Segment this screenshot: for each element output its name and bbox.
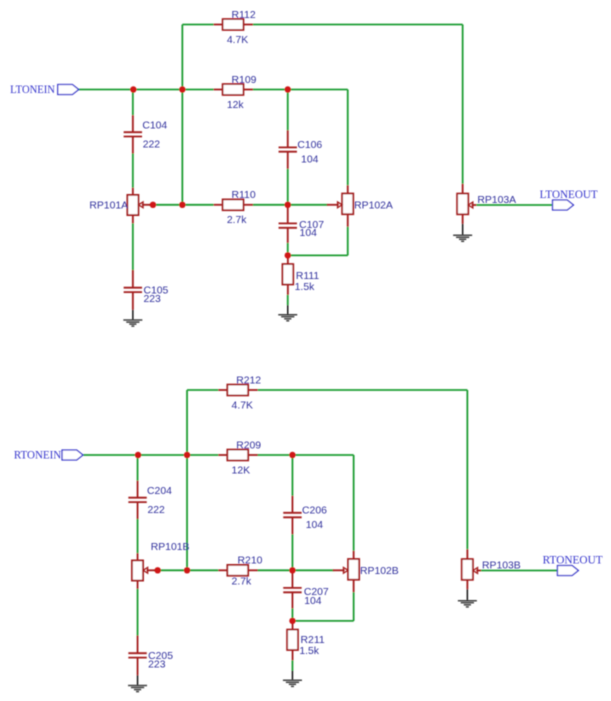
junction wiper row/left vertical <box>184 567 190 573</box>
junction C207/R211 <box>289 618 295 624</box>
svg-text:12K: 12K <box>232 465 251 476</box>
svg-text:R110: R110 <box>232 190 256 201</box>
capacitor C207 <box>291 572 293 588</box>
svg-text:1.5k: 1.5k <box>299 646 319 657</box>
capacitor C107 <box>287 206 289 223</box>
capacitor C105 <box>132 270 134 288</box>
resistor R211 <box>292 621 294 630</box>
junction C107/R111 <box>285 252 291 258</box>
potentiometer RP102B <box>353 551 355 559</box>
potentiometer RP102A <box>347 185 349 193</box>
port RTONEIN <box>62 450 83 460</box>
wire C106 bottom <box>287 169 289 205</box>
ground (RP103A) <box>453 235 472 241</box>
junction wiper row/left vertical <box>179 202 185 208</box>
wire top rail right (R212) <box>258 389 468 391</box>
potentiometer RP101A <box>132 188 134 195</box>
wire C104 top <box>132 90 134 116</box>
potentiometer RP101B <box>137 553 139 560</box>
junction R109/C106 <box>285 86 291 92</box>
svg-text:RP101A: RP101A <box>89 201 128 212</box>
svg-text:R209: R209 <box>236 440 261 451</box>
resistor R112 <box>214 24 223 26</box>
svg-text:4.7K: 4.7K <box>227 35 248 46</box>
ground lead RP103B <box>466 589 468 600</box>
wire C207 to R211 <box>291 608 293 621</box>
ground (C105) <box>123 320 142 326</box>
wire C206 top <box>291 455 293 496</box>
wire R111 row to RP102A bottom <box>288 254 348 256</box>
potentiometer RP103B <box>466 549 468 559</box>
wire R111 to ground <box>287 295 289 305</box>
wire top rail right (R112) <box>253 24 463 26</box>
svg-text:223: 223 <box>148 660 166 671</box>
wire R209 output to RP102B top <box>257 454 353 456</box>
resistor R209 <box>218 454 227 456</box>
svg-text:2.7k: 2.7k <box>227 215 247 226</box>
port LTONEOUT <box>553 200 574 210</box>
junction RP101A wiper <box>150 202 156 208</box>
wire RP103B wiper to output port <box>481 570 557 572</box>
svg-text:12k: 12k <box>227 100 245 111</box>
resistor R109 <box>214 89 223 91</box>
wire C106 top <box>287 90 289 131</box>
svg-text:223: 223 <box>143 294 161 305</box>
wire left vertical <box>181 25 183 205</box>
junction R209/C206 <box>289 452 295 458</box>
wire R211 row to RP102B bottom <box>292 620 353 622</box>
ground lead R211 <box>291 671 293 681</box>
capacitor C106 <box>287 130 289 147</box>
junction RP101B wiper <box>154 567 160 573</box>
junction R110/C107 <box>285 202 291 208</box>
wire wiper row right <box>253 204 328 206</box>
ground (RP103B) <box>458 601 477 607</box>
wire C204 top <box>137 455 139 481</box>
wire C107 to R111 <box>287 243 289 256</box>
svg-text:LTONEOUT: LTONEOUT <box>540 189 598 201</box>
svg-text:104: 104 <box>300 228 318 239</box>
port LTONEIN <box>58 85 79 95</box>
capacitor C205 <box>137 636 139 654</box>
svg-text:222: 222 <box>147 505 165 516</box>
svg-text:R112: R112 <box>232 10 256 21</box>
svg-text:222: 222 <box>143 140 161 151</box>
svg-text:C206: C206 <box>302 506 327 517</box>
svg-text:R211: R211 <box>301 635 325 646</box>
junction R210/C207 <box>289 567 295 573</box>
port RTONEOUT <box>557 566 578 576</box>
svg-text:RP102A: RP102A <box>354 201 393 212</box>
wire R211 to ground <box>291 660 293 670</box>
ground lead RP103A <box>462 224 464 235</box>
svg-text:C204: C204 <box>147 486 172 497</box>
svg-text:R210: R210 <box>238 556 263 567</box>
svg-text:RP103A: RP103A <box>477 195 516 206</box>
svg-text:RP102B: RP102B <box>360 566 399 577</box>
svg-text:LTONEIN: LTONEIN <box>10 84 55 96</box>
svg-text:1.5k: 1.5k <box>295 282 315 293</box>
wire C204 to RP101B <box>137 519 139 553</box>
capacitor C104 <box>132 115 134 132</box>
ground (C205) <box>128 686 147 692</box>
wire top rail left (R112) <box>182 24 213 26</box>
ground lead C205 <box>137 675 139 685</box>
potentiometer RP103A <box>462 184 464 194</box>
svg-text:RTONEIN: RTONEIN <box>14 449 61 461</box>
resistor R210 <box>218 569 227 571</box>
junction input/C204 <box>135 452 141 458</box>
svg-text:C106: C106 <box>297 140 322 151</box>
capacitor C204 <box>137 481 139 498</box>
wire RP103A wiper to output port <box>476 204 552 206</box>
wire input row <box>79 89 214 91</box>
wire wiper row left <box>154 569 219 571</box>
wire left vertical <box>186 390 188 570</box>
svg-text:C104: C104 <box>142 121 167 132</box>
junction input/C104 <box>130 86 136 92</box>
svg-text:RP103B: RP103B <box>482 561 521 572</box>
resistor R111 <box>287 255 289 264</box>
wire C104 to RP101A <box>132 154 134 188</box>
wire wiper row right <box>257 569 333 571</box>
svg-text:2.7k: 2.7k <box>232 577 252 588</box>
svg-text:R212: R212 <box>236 375 261 386</box>
junction input/left vertical <box>184 452 190 458</box>
wire wiper row left <box>149 204 214 206</box>
svg-text:4.7K: 4.7K <box>232 400 253 411</box>
svg-text:RTONEOUT: RTONEOUT <box>543 555 603 567</box>
junction input/left vertical <box>179 86 185 92</box>
wire RP101A to C105 <box>132 223 134 270</box>
svg-text:104: 104 <box>304 596 322 607</box>
wire R109 output to RP102A top <box>253 89 348 91</box>
svg-text:RP101B: RP101B <box>151 542 190 553</box>
wire top rail left (R212) <box>187 389 218 391</box>
wire C206 bottom <box>291 534 293 570</box>
svg-text:R111: R111 <box>296 271 320 282</box>
ground (R111) <box>278 315 297 321</box>
ground lead R111 <box>287 305 289 315</box>
resistor R110 <box>214 204 223 206</box>
resistor R212 <box>218 389 227 391</box>
wire right vertical <box>462 25 464 184</box>
ground (R211) <box>283 680 302 686</box>
wire RP101B to C205 <box>137 589 139 636</box>
wire input row <box>83 454 218 456</box>
svg-text:104: 104 <box>301 155 319 166</box>
wire right vertical <box>466 390 468 549</box>
svg-text:R109: R109 <box>232 75 257 86</box>
svg-text:104: 104 <box>306 520 324 531</box>
ground lead C105 <box>132 310 134 320</box>
capacitor C206 <box>291 496 293 513</box>
